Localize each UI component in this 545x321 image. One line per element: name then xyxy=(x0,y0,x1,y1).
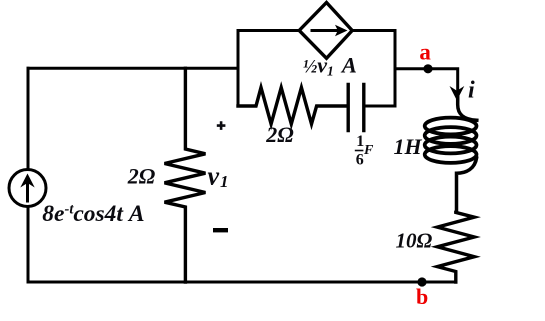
svg-text:6: 6 xyxy=(356,152,364,169)
svg-text:1: 1 xyxy=(356,133,364,150)
svg-text:10Ω: 10Ω xyxy=(396,229,433,253)
svg-text:F: F xyxy=(363,143,374,158)
svg-text:2Ω: 2Ω xyxy=(127,164,156,189)
svg-text:1H: 1H xyxy=(394,134,423,159)
svg-text:i: i xyxy=(468,78,475,104)
svg-text:b: b xyxy=(416,284,428,309)
svg-text:v1: v1 xyxy=(208,162,229,192)
svg-text:2Ω: 2Ω xyxy=(265,122,294,147)
svg-text:a: a xyxy=(419,40,431,65)
svg-text:8e-tcos4t A: 8e-tcos4t A xyxy=(42,201,144,227)
